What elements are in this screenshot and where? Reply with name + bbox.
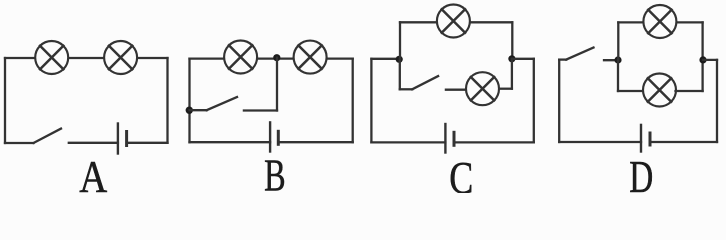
wire: C bottom right xyxy=(454,141,534,143)
wire: D lower branch right xyxy=(676,90,703,92)
wire: C top xyxy=(400,21,512,23)
wire: D bottom right xyxy=(650,141,717,143)
switch A (open blade) xyxy=(34,129,62,143)
lamp D1 (top) xyxy=(643,5,676,38)
wire: C switch stub xyxy=(400,88,412,90)
wire: D top xyxy=(618,21,702,23)
svg-text:B: B xyxy=(264,151,286,194)
node: C right junction dot xyxy=(508,55,515,62)
wire: B vertical from contact to junction dot xyxy=(276,58,278,111)
wire: D lower branch left xyxy=(618,90,644,92)
wire: C switch fixed contact xyxy=(446,89,466,91)
wire: B bottom left xyxy=(190,141,271,143)
wire: D right vertical xyxy=(716,60,718,142)
lamp D2 (bottom) xyxy=(643,74,676,107)
battery D xyxy=(641,125,650,152)
switch B (open blade) xyxy=(207,97,237,110)
wire: C bottom left xyxy=(371,141,445,143)
wire: D upper-right riser xyxy=(701,22,703,60)
circuit B xyxy=(186,41,353,201)
circuit C xyxy=(371,5,533,204)
lamp B1 xyxy=(224,41,257,74)
wire: C right vertical xyxy=(533,59,535,143)
node: D right junction dot xyxy=(699,56,706,63)
wire: A top xyxy=(5,57,168,59)
wire: D lower-right riser xyxy=(701,60,703,91)
wire: C right horizontal xyxy=(512,58,534,60)
switch C (open blade) xyxy=(412,76,438,89)
wire: A right vertical xyxy=(166,58,168,143)
wire: C upper-left riser xyxy=(399,22,401,59)
wire: C left vertical xyxy=(370,59,372,143)
circuit D xyxy=(559,5,717,202)
lamp A2 xyxy=(104,41,137,74)
wire: C lamp to right riser xyxy=(500,88,512,90)
node: D left junction dot xyxy=(614,56,621,63)
wire: A left vertical xyxy=(4,58,6,143)
svg-text:D: D xyxy=(629,152,653,193)
svg-text:C: C xyxy=(449,153,473,193)
switch D (open blade) xyxy=(566,48,593,60)
wire: B switch fixed contact xyxy=(244,109,277,111)
wire: B switch stub xyxy=(190,109,207,111)
wire: C lower-right riser xyxy=(511,59,513,89)
battery B xyxy=(270,122,278,151)
lamp C1 (top) xyxy=(437,5,470,38)
wire: B right vertical xyxy=(352,59,354,143)
wire: C left horizontal to node xyxy=(371,58,399,60)
lamp C2 (lower branch) xyxy=(466,72,499,105)
wire: B left vertical xyxy=(188,59,190,143)
wire: C lower-left drop from node xyxy=(399,59,401,89)
circuit A xyxy=(5,41,168,202)
wire: C upper-right riser xyxy=(511,22,513,59)
wire: A bottom right xyxy=(127,142,168,144)
wire: D switch stub xyxy=(559,58,566,60)
node: junction dot between B1 and B2 xyxy=(273,54,280,61)
wire: D left vertical xyxy=(558,60,560,142)
wire: B bottom right xyxy=(278,141,352,143)
wire: A bottom middle xyxy=(69,142,118,144)
wire: D upper-left riser xyxy=(617,22,619,60)
node: C left junction dot xyxy=(396,56,403,63)
wire: D lower-left riser xyxy=(617,60,619,91)
node: dot on B left vertical xyxy=(186,107,193,114)
wire: B top xyxy=(190,57,353,59)
lamp A1 xyxy=(35,41,68,74)
battery C xyxy=(445,124,454,153)
svg-text:A: A xyxy=(79,152,107,193)
lamp B2 xyxy=(294,41,327,74)
wire: D right horizontal xyxy=(703,59,717,61)
battery A xyxy=(118,124,127,154)
wire: A bottom left xyxy=(5,142,34,144)
wire: D switch fixed contact xyxy=(604,59,618,61)
wire: D bottom left xyxy=(559,141,641,143)
